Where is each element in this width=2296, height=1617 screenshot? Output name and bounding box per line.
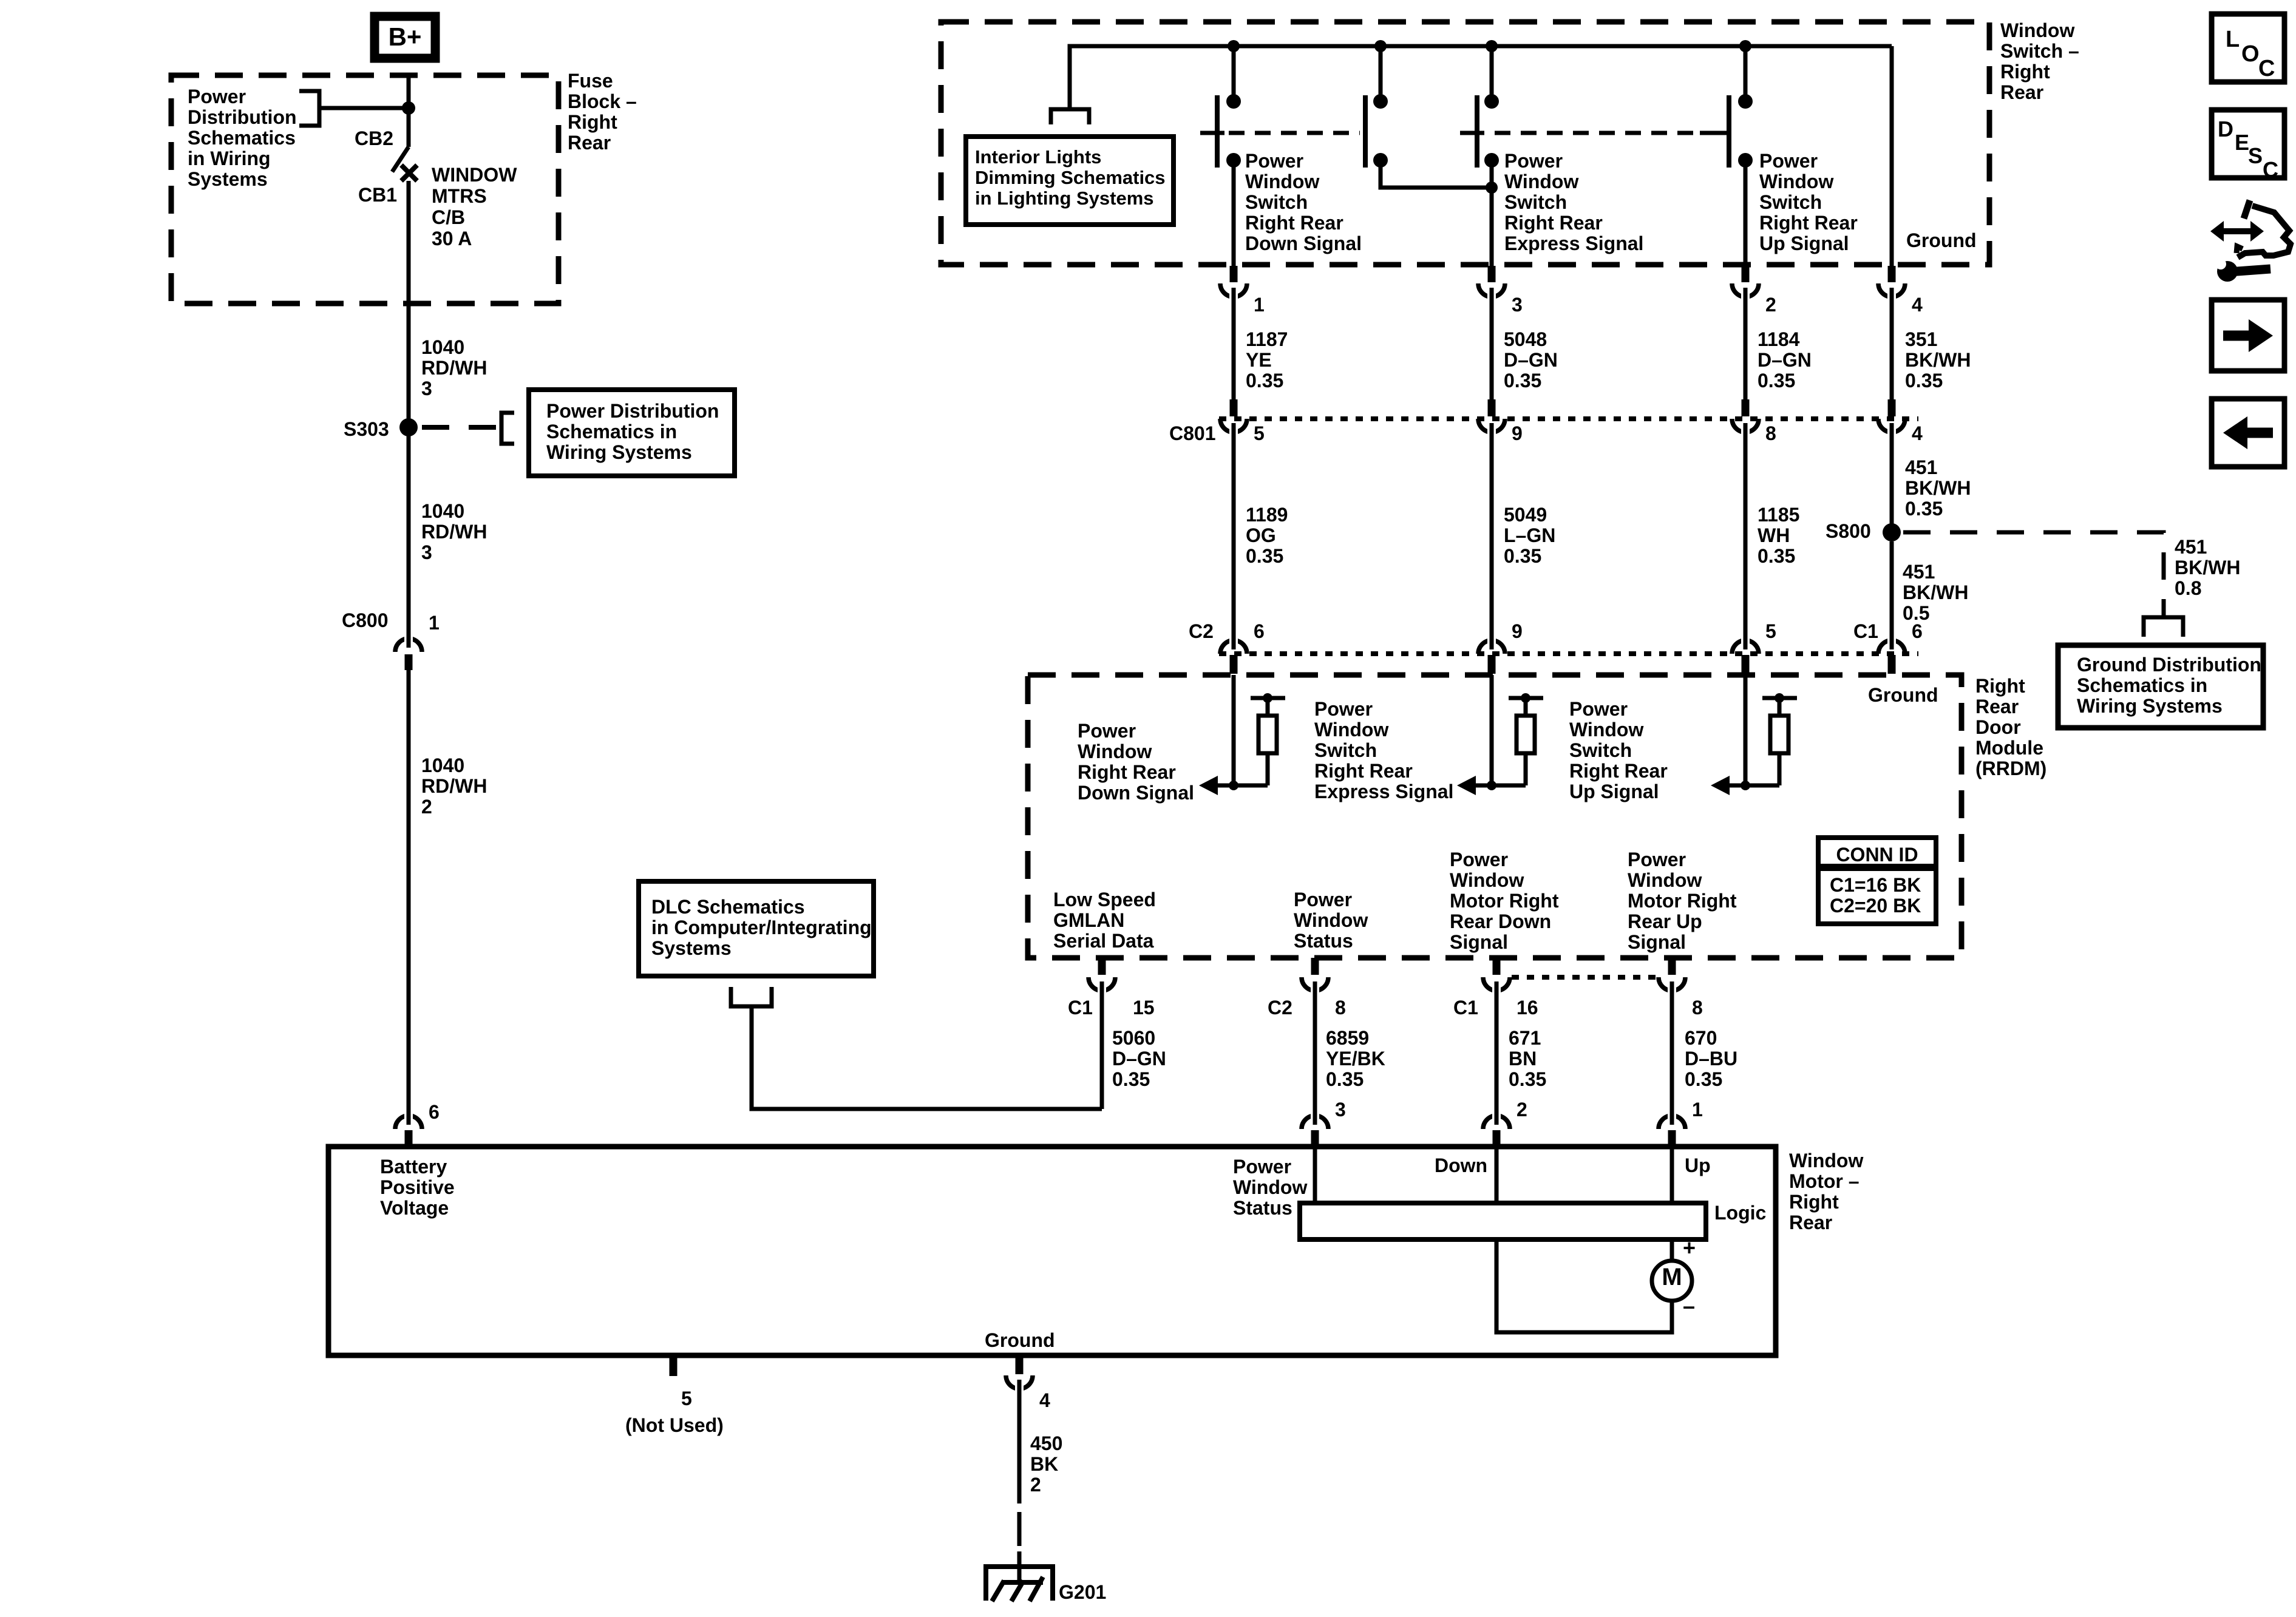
svg-text:2: 2 — [421, 796, 432, 818]
wire S800 to ground distribution (dashed 451 BK/WH 0.8) — [1903, 532, 2164, 614]
connector RRDM top pin 6 — [1220, 640, 1247, 654]
svg-text:Systems: Systems — [651, 937, 732, 959]
callout box DLC Schematics in Computer/Integrating Systems — [639, 881, 874, 976]
icon DESC button — [2212, 110, 2284, 178]
svg-text:Window: Window — [1314, 719, 1388, 741]
node bus junction x=2032 — [1228, 40, 1240, 52]
svg-text:Window: Window — [1245, 171, 1319, 192]
svg-text:O: O — [2241, 41, 2260, 67]
wire 6859 YE/BK 0.35 status — [1313, 991, 1317, 1120]
svg-text:Power: Power — [1078, 720, 1136, 742]
svg-text:451: 451 — [1903, 561, 1935, 583]
wire down signal to pin 1 — [1232, 160, 1236, 267]
connector RRDM top pin 9 — [1478, 640, 1505, 654]
connector C801 pin 8 — [1742, 399, 1750, 416]
svg-text:9: 9 — [1512, 422, 1523, 444]
connector RRDM bottom pin 8 — [1668, 958, 1676, 975]
svg-text:G201: G201 — [1059, 1581, 1106, 1603]
connector window motor pin 6 — [395, 1116, 422, 1129]
svg-text:3: 3 — [421, 541, 432, 563]
svg-text:D–GN: D–GN — [1504, 349, 1558, 371]
bracket power distribution callout — [501, 413, 514, 444]
svg-text:5049: 5049 — [1504, 504, 1547, 526]
wire switch output to C801 x=2875 — [1744, 297, 1748, 399]
svg-text:WINDOW: WINDOW — [432, 164, 517, 186]
connector window switch pin 2 — [1742, 266, 1750, 282]
svg-text:Logic: Logic — [1714, 1202, 1766, 1224]
splice S800 — [1883, 523, 1901, 541]
svg-text:Right: Right — [568, 111, 617, 133]
svg-text:Window: Window — [1294, 909, 1368, 931]
wire up signal to pin 2 — [1744, 160, 1748, 267]
svg-text:Switch: Switch — [1759, 191, 1822, 213]
svg-text:YE: YE — [1246, 349, 1272, 371]
svg-text:+: + — [1683, 1235, 1696, 1260]
icon LOC button — [2212, 14, 2284, 82]
svg-text:Right: Right — [1975, 675, 2025, 697]
logic block — [1300, 1203, 1706, 1239]
svg-text:Ground Distribution: Ground Distribution — [2077, 654, 2261, 676]
connector C801 pin 5 — [1230, 399, 1238, 416]
svg-text:Switch –: Switch – — [2000, 40, 2079, 62]
svg-text:6: 6 — [1912, 620, 1923, 642]
connector RRDM top pin 5 — [1732, 640, 1759, 654]
svg-text:C800: C800 — [342, 609, 389, 631]
callout box Power Distribution Schematics in Wiring Systems — [529, 390, 735, 476]
svg-text:D: D — [2218, 117, 2233, 141]
wire ground dashed segment — [1017, 1512, 1022, 1546]
switch express blade bar — [1363, 95, 1368, 168]
svg-text:2: 2 — [1765, 294, 1776, 316]
svg-text:BK/WH: BK/WH — [2175, 557, 2240, 578]
RRDM down signal input with pull-up resistor — [1232, 675, 1236, 785]
svg-text:Rear: Rear — [2000, 81, 2043, 103]
svg-text:B+: B+ — [389, 22, 422, 51]
svg-text:3: 3 — [1335, 1099, 1346, 1120]
svg-text:1187: 1187 — [1246, 328, 1288, 350]
svg-text:Window: Window — [1450, 869, 1524, 891]
wire down into logic — [1495, 1149, 1499, 1205]
svg-text:Window: Window — [1504, 171, 1578, 192]
svg-text:Interior Lights: Interior Lights — [975, 146, 1101, 168]
wire bracket to CB2 node — [319, 106, 409, 110]
svg-text:MTRS: MTRS — [432, 185, 487, 207]
CONN ID table — [1818, 838, 1936, 924]
connector window switch pin 1 — [1230, 266, 1238, 282]
callout box Interior Lights Dimming Schematics in Lighting Systems — [966, 137, 1173, 225]
svg-text:Down: Down — [1435, 1154, 1487, 1176]
wire 5060 D-GN 0.35 serial data — [1100, 991, 1104, 1109]
svg-text:Down Signal: Down Signal — [1245, 232, 1362, 254]
svg-text:C2: C2 — [1268, 997, 1292, 1019]
node CB2 feed junction — [402, 101, 415, 115]
svg-text:3: 3 — [1512, 294, 1523, 316]
svg-text:Power: Power — [1628, 849, 1686, 870]
svg-text:Right Rear: Right Rear — [1759, 212, 1858, 234]
svg-text:451: 451 — [1905, 456, 1937, 478]
switch linkage dashes down-express — [1229, 131, 1360, 135]
svg-text:in Lighting Systems: in Lighting Systems — [975, 188, 1154, 209]
switch up feed stub — [1744, 46, 1748, 101]
svg-text:Power: Power — [1504, 150, 1563, 172]
wire motor loop — [1496, 1239, 1672, 1332]
connector RRDM bottom pin 8 — [1311, 958, 1319, 975]
wire S800 to C1 pin 6 451 BK/WH 0.5 — [1890, 541, 1894, 645]
switch express upper contact — [1373, 94, 1388, 109]
svg-text:Schematics in: Schematics in — [546, 421, 677, 442]
svg-text:Door: Door — [1975, 716, 2021, 738]
svg-text:Window: Window — [2000, 19, 2074, 41]
svg-text:E: E — [2235, 130, 2249, 155]
svg-text:Rear: Rear — [1789, 1212, 1832, 1233]
svg-text:5: 5 — [681, 1388, 692, 1409]
svg-text:8: 8 — [1335, 997, 1346, 1019]
svg-text:Power: Power — [1233, 1156, 1291, 1178]
svg-text:Motor Right: Motor Right — [1628, 890, 1737, 912]
wire switch output to C801 x=2457 — [1490, 297, 1494, 399]
wire motor plus lead — [1670, 1239, 1674, 1261]
splice S303 — [399, 418, 418, 436]
switch up blade bar — [1727, 95, 1731, 168]
svg-text:4: 4 — [1912, 294, 1923, 316]
svg-text:YE/BK: YE/BK — [1326, 1048, 1385, 1070]
svg-text:2: 2 — [1030, 1474, 1041, 1496]
svg-text:M: M — [1662, 1264, 1682, 1290]
svg-text:C1: C1 — [1068, 997, 1093, 1019]
icon vehicle repair (arrow car wrench) — [2222, 228, 2252, 234]
svg-text:5060: 5060 — [1112, 1027, 1155, 1049]
svg-text:5: 5 — [1254, 422, 1265, 444]
svg-text:C1=16 BK: C1=16 BK — [1830, 874, 1921, 896]
svg-text:0.35: 0.35 — [1504, 545, 1541, 567]
svg-text:0.35: 0.35 — [1509, 1068, 1546, 1090]
svg-text:BK/WH: BK/WH — [1905, 349, 1971, 371]
svg-text:8: 8 — [1692, 997, 1703, 1019]
svg-text:S303: S303 — [344, 418, 389, 440]
switch linkage tick at up bar — [1700, 131, 1727, 135]
svg-text:S800: S800 — [1826, 520, 1871, 542]
svg-text:Dimming Schematics: Dimming Schematics — [975, 167, 1166, 188]
svg-text:450: 450 — [1030, 1432, 1062, 1454]
svg-text:Ground: Ground — [985, 1329, 1055, 1351]
svg-text:Right Rear: Right Rear — [1569, 760, 1668, 782]
svg-text:5048: 5048 — [1504, 328, 1547, 350]
switch express second blade bar — [1475, 95, 1479, 168]
RRDM up signal input with pull-up resistor — [1744, 675, 1748, 785]
svg-text:Right Rear: Right Rear — [1504, 212, 1603, 234]
wire 5049 L-GN 0.35 C801 to RRDM — [1490, 433, 1494, 645]
svg-text:30 A: 30 A — [432, 228, 472, 249]
svg-text:Wiring Systems: Wiring Systems — [2077, 695, 2223, 717]
svg-text:1: 1 — [429, 612, 440, 634]
svg-text:6859: 6859 — [1326, 1027, 1369, 1049]
wire S303 to power distribution reference (dashed) — [422, 425, 498, 430]
svg-text:Down Signal: Down Signal — [1078, 782, 1194, 804]
svg-text:Power: Power — [1245, 150, 1303, 172]
svg-text:0.35: 0.35 — [1758, 545, 1795, 567]
svg-text:Power Distribution: Power Distribution — [546, 400, 719, 422]
connector window motor pin 2 — [1483, 1116, 1510, 1129]
svg-text:1189: 1189 — [1246, 504, 1288, 526]
wire express signal to pin 3 — [1490, 160, 1494, 267]
svg-text:S: S — [2248, 143, 2263, 168]
wire switch ground from bus to pin 4 — [1890, 46, 1894, 267]
svg-text:451: 451 — [2175, 536, 2207, 558]
svg-text:C2=20 BK: C2=20 BK — [1830, 895, 1921, 917]
svg-text:Systems: Systems — [188, 168, 268, 190]
wire 1185 WH 0.35 C801 to RRDM — [1744, 433, 1748, 645]
svg-text:BK: BK — [1030, 1453, 1058, 1475]
switch express second lower contact — [1484, 153, 1499, 168]
svg-text:CB1: CB1 — [358, 184, 397, 206]
switch express second upper contact stub — [1490, 46, 1494, 101]
svg-text:D–GN: D–GN — [1758, 349, 1812, 371]
svg-text:–: – — [1683, 1293, 1695, 1318]
svg-text:Switch: Switch — [1569, 739, 1632, 761]
RRDM express signal input with pull-up resistor — [1490, 675, 1494, 785]
svg-text:Wiring Systems: Wiring Systems — [546, 441, 692, 463]
node express output junction — [1486, 181, 1498, 194]
connector C2/C1 row line — [1219, 651, 1918, 656]
bracket ground distribution callout — [2144, 617, 2183, 637]
connector RRDM bottom pin 15 — [1098, 958, 1106, 975]
wire C800 to window motor pin 6 1040 RD/WH 2 — [407, 670, 411, 1120]
wire status into logic — [1313, 1149, 1317, 1205]
svg-text:Signal: Signal — [1450, 931, 1508, 953]
connector window switch pin 4 — [1888, 266, 1896, 282]
svg-text:Power: Power — [1569, 698, 1628, 720]
svg-text:Low Speed: Low Speed — [1053, 889, 1156, 910]
svg-text:Power: Power — [1294, 889, 1352, 910]
svg-text:Ground: Ground — [1906, 229, 1977, 251]
svg-text:Power: Power — [1314, 698, 1373, 720]
svg-text:Express Signal: Express Signal — [1314, 781, 1453, 802]
svg-text:4: 4 — [1039, 1389, 1050, 1411]
svg-text:1184: 1184 — [1758, 328, 1800, 350]
svg-text:Motor –: Motor – — [1789, 1170, 1860, 1192]
icon next arrow button — [2212, 300, 2284, 371]
node bus junction x=2274 — [1374, 40, 1387, 52]
switch linkage dashes express-up — [1495, 131, 1700, 135]
connector C801 row line — [1219, 416, 1918, 421]
svg-text:Schematics in: Schematics in — [2077, 674, 2207, 696]
svg-text:1040: 1040 — [421, 336, 464, 358]
svg-text:6: 6 — [429, 1101, 440, 1123]
connector window motor pin 5 not used — [670, 1358, 678, 1376]
power terminal B+ — [375, 16, 435, 58]
svg-text:351: 351 — [1905, 328, 1937, 350]
svg-text:Serial Data: Serial Data — [1053, 930, 1154, 952]
bracket DLC callout — [731, 987, 772, 1006]
callout box Ground Distribution Schematics in Wiring Systems — [2058, 645, 2263, 728]
svg-text:Right Rear: Right Rear — [1314, 760, 1413, 782]
svg-text:CB2: CB2 — [355, 127, 393, 149]
connector window motor ground pin 4 — [1016, 1358, 1024, 1374]
svg-text:Motor Right: Motor Right — [1450, 890, 1559, 912]
node bus junction x=2457 — [1486, 40, 1498, 52]
wire 451 BK/WH 0.35 C801 to S800 — [1890, 433, 1894, 532]
switch up upper contact — [1738, 94, 1753, 109]
connector RRDM bottom pin 16 — [1493, 958, 1501, 975]
svg-text:Switch: Switch — [1314, 739, 1377, 761]
svg-text:OG: OG — [1246, 524, 1276, 546]
switch down cross tick — [1200, 131, 1224, 135]
svg-text:Distribution: Distribution — [188, 106, 297, 128]
svg-text:Window: Window — [1759, 171, 1833, 192]
svg-text:Ground: Ground — [1868, 684, 1938, 706]
svg-text:Window: Window — [1628, 869, 1702, 891]
wire express elbow to output — [1381, 160, 1492, 188]
svg-text:15: 15 — [1133, 997, 1155, 1019]
wire up into logic — [1670, 1149, 1674, 1205]
svg-text:C801: C801 — [1169, 422, 1216, 444]
svg-text:Fuse: Fuse — [568, 70, 613, 92]
connector window motor pin 3 — [1302, 1116, 1328, 1129]
svg-text:in Computer/Integrating: in Computer/Integrating — [651, 917, 872, 938]
svg-text:0.35: 0.35 — [1504, 370, 1541, 392]
svg-text:BK/WH: BK/WH — [1903, 581, 1968, 603]
svg-text:1040: 1040 — [421, 754, 464, 776]
svg-text:0.35: 0.35 — [1246, 545, 1283, 567]
svg-text:(Not Used): (Not Used) — [625, 1414, 724, 1436]
switch express cross tick — [1460, 131, 1484, 135]
svg-text:4: 4 — [1912, 422, 1923, 444]
svg-text:Switch: Switch — [1504, 191, 1567, 213]
wire switch output to C801 x=3116 — [1890, 297, 1894, 399]
svg-text:C1: C1 — [1853, 620, 1878, 642]
svg-text:0.35: 0.35 — [1758, 370, 1795, 392]
wire B+ into fuse block — [407, 73, 411, 108]
svg-text:C: C — [2258, 56, 2275, 81]
switch down-pole feed stub — [1232, 46, 1236, 101]
svg-text:1185: 1185 — [1758, 504, 1799, 526]
svg-text:Right: Right — [1789, 1191, 1839, 1213]
svg-text:BK/WH: BK/WH — [1905, 477, 1971, 499]
svg-text:0.35: 0.35 — [1905, 370, 1943, 392]
svg-text:Switch: Switch — [1245, 191, 1308, 213]
switch down blade bar — [1215, 95, 1220, 168]
svg-text:Window: Window — [1569, 719, 1643, 741]
wire 670 D-BU 0.35 motor up — [1670, 991, 1674, 1120]
svg-text:L–GN: L–GN — [1504, 524, 1555, 546]
svg-text:Window: Window — [1789, 1150, 1863, 1171]
connector C1 dotted link (motor signals) — [1512, 975, 1657, 980]
circuit breaker CB1 contact X — [401, 165, 417, 181]
svg-text:670: 670 — [1685, 1027, 1717, 1049]
svg-text:0.35: 0.35 — [1326, 1068, 1364, 1090]
svg-text:1040: 1040 — [421, 500, 464, 522]
RRDM box Right Rear Door Module — [1028, 675, 1961, 958]
switch express lower contact — [1373, 153, 1388, 168]
svg-text:in Wiring: in Wiring — [188, 147, 271, 169]
svg-text:L: L — [2226, 27, 2240, 52]
wire CB1 to S303 1040 RD/WH 3 — [407, 181, 411, 423]
svg-text:D–BU: D–BU — [1685, 1048, 1737, 1070]
svg-text:Signal: Signal — [1628, 931, 1686, 953]
svg-text:1: 1 — [1692, 1099, 1703, 1120]
motor M (window motor) — [1652, 1261, 1692, 1301]
svg-text:Rear Up: Rear Up — [1628, 910, 1702, 932]
svg-text:Up Signal: Up Signal — [1569, 781, 1659, 802]
switch up lower contact — [1738, 153, 1753, 168]
svg-text:C1: C1 — [1453, 997, 1478, 1019]
connector C801 pin 4 — [1888, 399, 1896, 416]
svg-text:RD/WH: RD/WH — [421, 521, 487, 543]
bracket power distribution reference — [299, 91, 319, 126]
wire ground 450 BK 2 — [1017, 1389, 1022, 1503]
wire 1189 OG 0.35 C801 to RRDM — [1232, 433, 1236, 645]
svg-text:Right Rear: Right Rear — [1078, 761, 1176, 783]
svg-text:RD/WH: RD/WH — [421, 775, 487, 797]
svg-text:Battery: Battery — [380, 1156, 447, 1178]
svg-text:Status: Status — [1294, 930, 1353, 952]
svg-text:Module: Module — [1975, 737, 2043, 759]
svg-text:8: 8 — [1765, 422, 1776, 444]
svg-text:C2: C2 — [1189, 620, 1214, 642]
wire 671 BN 0.35 motor down — [1495, 991, 1499, 1120]
svg-text:RD/WH: RD/WH — [421, 357, 487, 379]
svg-text:5: 5 — [1765, 620, 1776, 642]
window switch box Window Switch - Right Rear — [941, 22, 1989, 265]
svg-text:16: 16 — [1517, 997, 1538, 1019]
svg-text:Power: Power — [1759, 150, 1818, 172]
svg-text:Block –: Block – — [568, 90, 637, 112]
svg-text:Power: Power — [1450, 849, 1508, 870]
svg-text:2: 2 — [1517, 1099, 1527, 1120]
svg-text:C/B: C/B — [432, 206, 465, 228]
svg-text:Window: Window — [1078, 741, 1152, 762]
svg-text:0.35: 0.35 — [1905, 498, 1943, 520]
svg-text:Window: Window — [1233, 1176, 1307, 1198]
svg-text:DLC Schematics: DLC Schematics — [651, 896, 805, 918]
svg-text:6: 6 — [1254, 620, 1265, 642]
svg-text:Right: Right — [2000, 61, 2050, 83]
svg-text:D–GN: D–GN — [1112, 1048, 1166, 1070]
wire DLC to serial data elbow — [752, 1006, 1102, 1109]
svg-text:Right Rear: Right Rear — [1245, 212, 1343, 234]
ground G201 — [1017, 1551, 1022, 1582]
connector window motor pin 1 — [1659, 1116, 1685, 1129]
svg-text:Voltage: Voltage — [380, 1197, 449, 1219]
icon back arrow button — [2212, 399, 2284, 467]
svg-text:Rear: Rear — [1975, 696, 2019, 717]
svg-text:Rear: Rear — [568, 132, 611, 154]
wire switch output to C801 x=2032 — [1232, 297, 1236, 399]
svg-text:BN: BN — [1509, 1048, 1537, 1070]
node bus junction x=2875 — [1739, 40, 1751, 52]
connector C801 pin 9 — [1488, 399, 1496, 416]
svg-text:(RRDM): (RRDM) — [1975, 758, 2046, 779]
svg-text:0.35: 0.35 — [1246, 370, 1283, 392]
svg-text:671: 671 — [1509, 1027, 1541, 1049]
svg-text:C: C — [2263, 157, 2278, 182]
svg-text:Express Signal: Express Signal — [1504, 232, 1643, 254]
switch express feed stub — [1379, 46, 1383, 101]
svg-text:Up Signal: Up Signal — [1759, 232, 1849, 254]
svg-text:Rear Down: Rear Down — [1450, 910, 1551, 932]
wire S303 to C800 1040 RD/WH 3 — [407, 432, 411, 641]
svg-text:Positive: Positive — [380, 1176, 455, 1198]
svg-text:0.35: 0.35 — [1112, 1068, 1150, 1090]
svg-text:Schematics: Schematics — [188, 127, 296, 149]
battery bus wire in window switch — [1070, 46, 1892, 109]
switch down lower contact — [1226, 153, 1241, 168]
svg-text:3: 3 — [421, 378, 432, 399]
svg-text:WH: WH — [1758, 524, 1790, 546]
svg-text:0.8: 0.8 — [2175, 577, 2201, 599]
window motor box Window Motor - Right Rear — [328, 1147, 1776, 1355]
svg-text:GMLAN: GMLAN — [1053, 909, 1124, 931]
